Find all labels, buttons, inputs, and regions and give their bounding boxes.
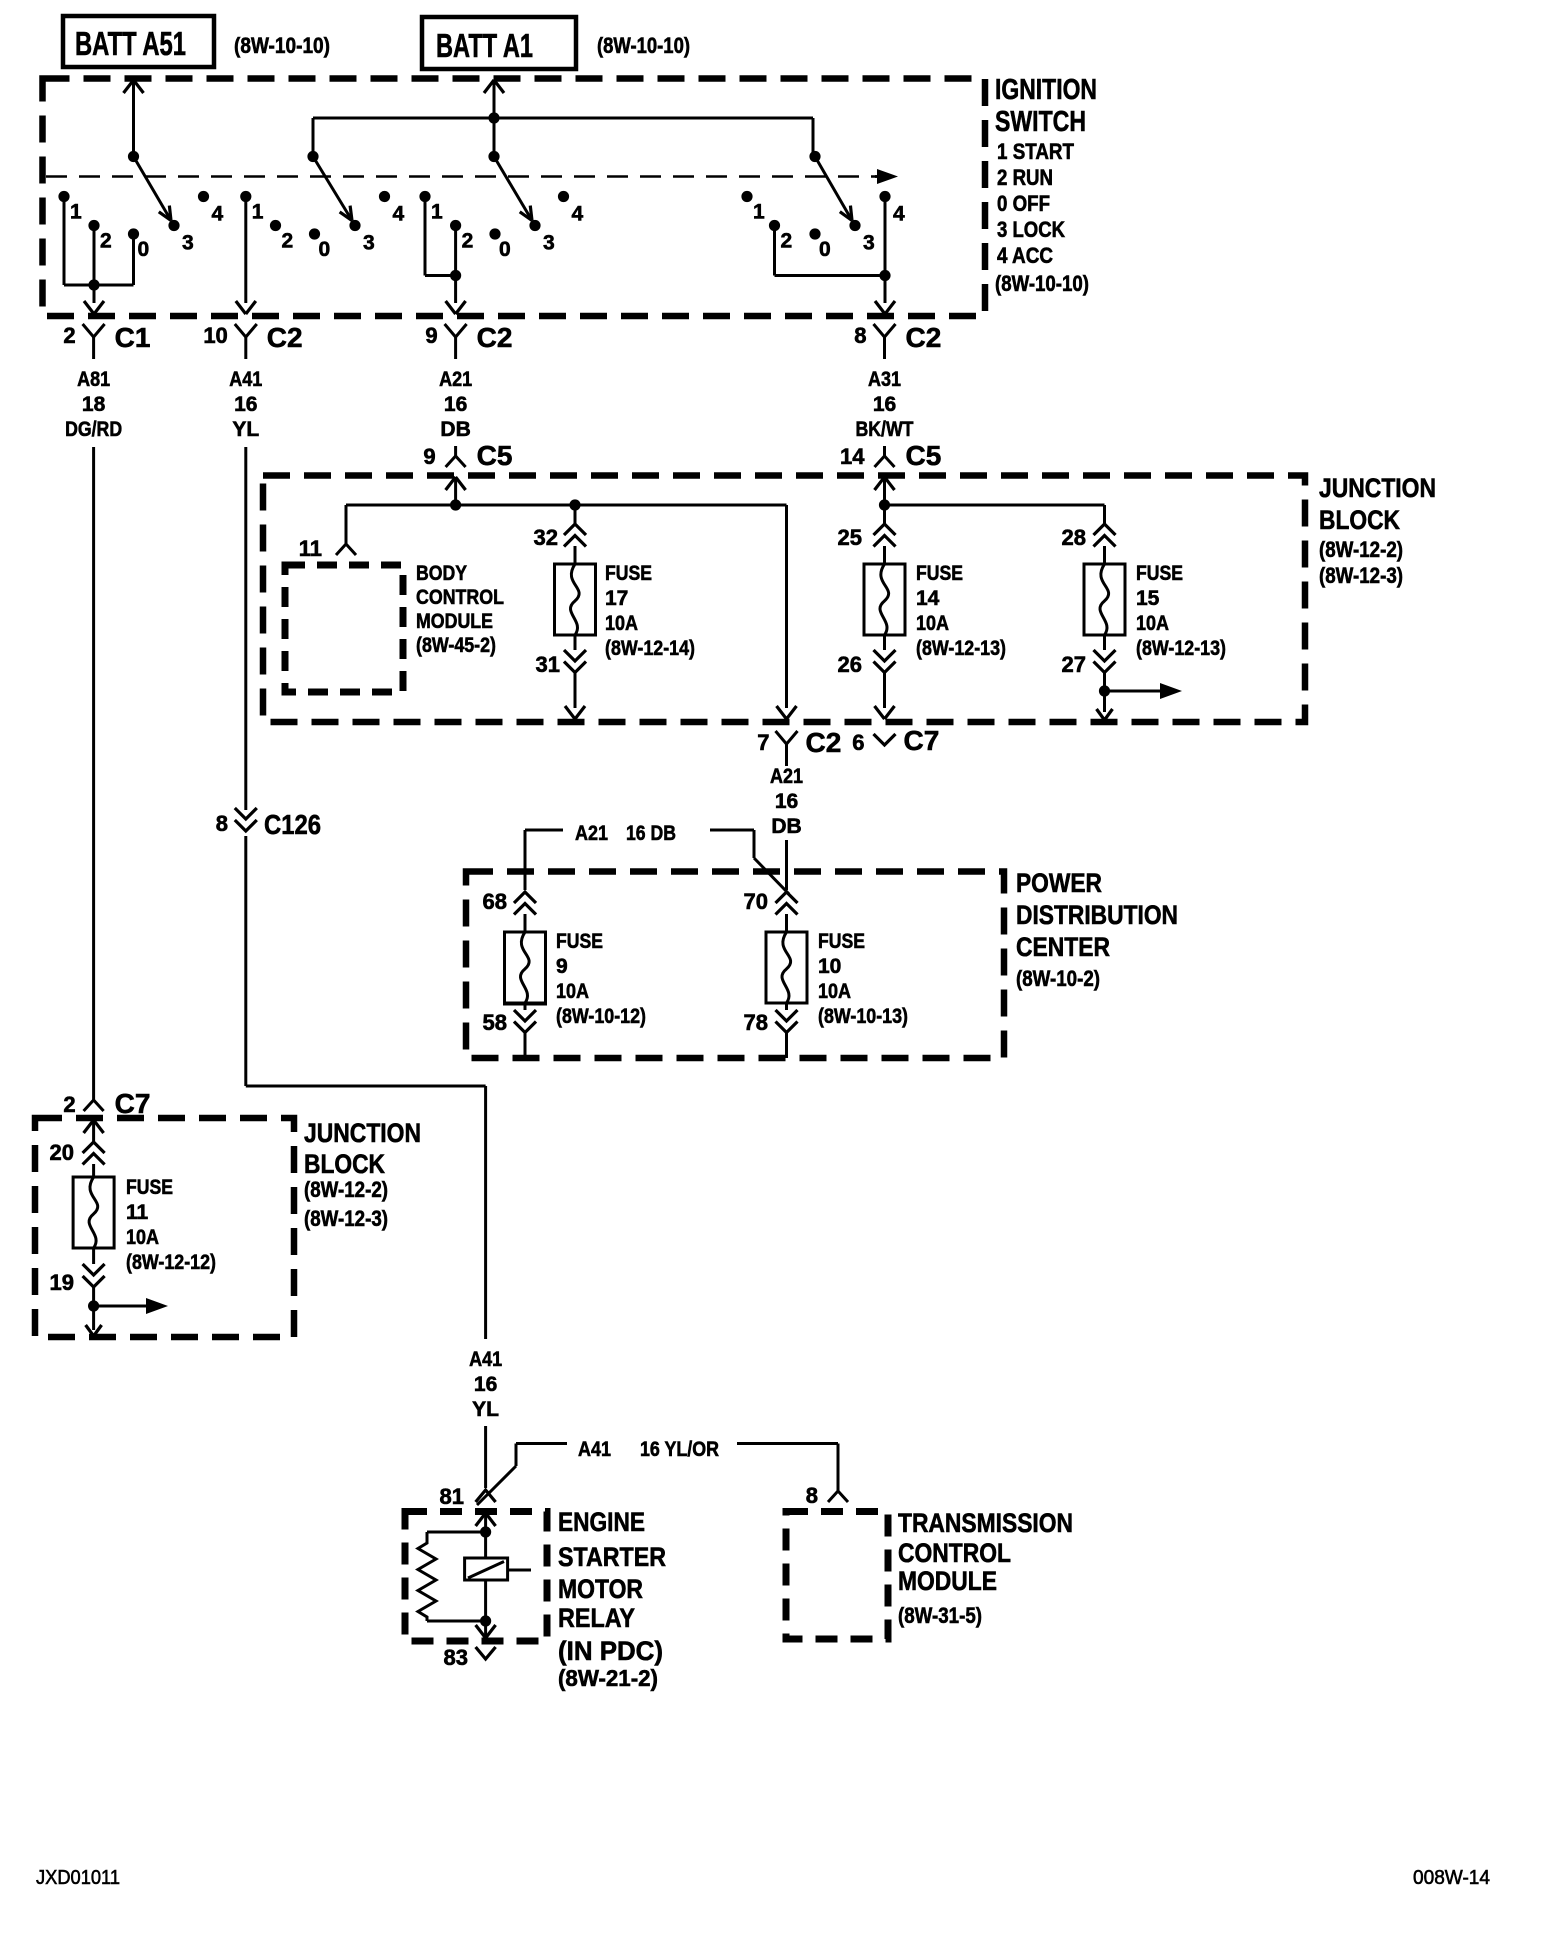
svg-text:FUSE: FUSE [556, 930, 603, 953]
svg-text:FUSE: FUSE [126, 1176, 173, 1199]
svg-text:10A: 10A [818, 980, 851, 1003]
svg-text:A31: A31 [868, 368, 901, 391]
svg-text:(8W-12-2): (8W-12-2) [304, 1177, 388, 1202]
svg-text:1 START: 1 START [997, 139, 1074, 164]
svg-text:JUNCTION: JUNCTION [304, 1118, 421, 1148]
svg-text:11: 11 [299, 536, 322, 561]
svg-text:IGNITION: IGNITION [995, 74, 1097, 106]
svg-text:14: 14 [916, 587, 940, 610]
svg-text:16: 16 [873, 393, 896, 416]
svg-text:(8W-12-13): (8W-12-13) [916, 637, 1006, 660]
svg-text:FUSE: FUSE [605, 562, 652, 585]
svg-text:A21: A21 [770, 765, 803, 788]
svg-text:4: 4 [393, 203, 405, 226]
svg-text:0: 0 [138, 238, 150, 261]
svg-text:81: 81 [440, 1484, 464, 1509]
svg-text:DG/RD: DG/RD [65, 418, 122, 441]
svg-text:16 DB: 16 DB [626, 822, 676, 845]
svg-text:(8W-10-10): (8W-10-10) [995, 271, 1089, 296]
svg-text:68: 68 [483, 889, 507, 914]
svg-text:C126: C126 [264, 809, 321, 840]
svg-text:BK/WT: BK/WT [856, 418, 914, 441]
svg-text:0: 0 [819, 238, 831, 261]
svg-text:78: 78 [744, 1010, 768, 1035]
svg-text:POWER: POWER [1016, 868, 1102, 898]
svg-text:(8W-10-12): (8W-10-12) [556, 1005, 646, 1028]
svg-text:2 RUN: 2 RUN [997, 165, 1053, 190]
svg-text:27: 27 [1062, 652, 1086, 677]
svg-text:C2: C2 [477, 322, 513, 353]
svg-text:1: 1 [70, 201, 82, 224]
svg-text:(8W-21-2): (8W-21-2) [558, 1665, 658, 1691]
svg-text:FUSE: FUSE [916, 562, 963, 585]
svg-text:16 YL/OR: 16 YL/OR [640, 1438, 719, 1461]
svg-text:1: 1 [252, 201, 264, 224]
svg-text:58: 58 [483, 1010, 507, 1035]
svg-text:9: 9 [425, 323, 437, 348]
svg-text:3: 3 [363, 232, 375, 255]
svg-text:1: 1 [431, 201, 443, 224]
svg-text:70: 70 [744, 889, 768, 914]
svg-text:MOTOR: MOTOR [558, 1574, 643, 1604]
svg-text:C5: C5 [477, 440, 513, 471]
svg-text:(8W-12-2): (8W-12-2) [1319, 537, 1403, 562]
svg-text:A41: A41 [469, 1348, 502, 1371]
svg-text:C7: C7 [115, 1088, 151, 1119]
svg-text:32: 32 [534, 525, 558, 550]
svg-text:JUNCTION: JUNCTION [1319, 473, 1436, 503]
svg-text:008W-14: 008W-14 [1413, 1867, 1490, 1889]
svg-text:FUSE: FUSE [1136, 562, 1183, 585]
svg-text:8: 8 [854, 323, 866, 348]
svg-text:3 LOCK: 3 LOCK [997, 217, 1065, 242]
svg-text:3: 3 [543, 232, 555, 255]
svg-text:ENGINE: ENGINE [558, 1507, 645, 1537]
svg-text:A21: A21 [439, 368, 472, 391]
svg-text:10A: 10A [605, 612, 638, 635]
svg-text:(8W-31-5): (8W-31-5) [898, 1603, 982, 1628]
svg-text:0: 0 [319, 238, 331, 261]
svg-text:83: 83 [444, 1645, 468, 1670]
svg-text:YL: YL [232, 418, 259, 441]
svg-text:3: 3 [863, 232, 875, 255]
svg-text:19: 19 [50, 1270, 74, 1295]
svg-text:0: 0 [499, 238, 511, 261]
svg-text:YL: YL [472, 1398, 499, 1421]
svg-text:9: 9 [556, 955, 568, 978]
svg-text:(8W-45-2): (8W-45-2) [416, 634, 496, 657]
svg-text:6: 6 [852, 730, 864, 755]
svg-text:10A: 10A [1136, 612, 1169, 635]
svg-text:2: 2 [63, 323, 75, 348]
svg-text:(8W-12-3): (8W-12-3) [304, 1206, 388, 1231]
svg-text:C1: C1 [115, 322, 151, 353]
svg-text:4 ACC: 4 ACC [997, 243, 1053, 268]
svg-text:10A: 10A [556, 980, 589, 1003]
svg-text:C5: C5 [906, 440, 942, 471]
svg-text:16: 16 [775, 790, 798, 813]
svg-text:16: 16 [474, 1373, 497, 1396]
svg-text:DB: DB [440, 418, 470, 441]
svg-text:DISTRIBUTION: DISTRIBUTION [1016, 900, 1178, 930]
svg-text:A41: A41 [578, 1438, 611, 1461]
svg-text:25: 25 [838, 525, 862, 550]
svg-text:MODULE: MODULE [416, 610, 493, 633]
svg-text:A21: A21 [575, 822, 608, 845]
svg-text:STARTER: STARTER [558, 1542, 666, 1572]
svg-text:15: 15 [1136, 587, 1160, 610]
svg-text:BLOCK: BLOCK [304, 1149, 385, 1179]
svg-text:C2: C2 [267, 322, 303, 353]
svg-text:10A: 10A [126, 1226, 159, 1249]
svg-text:20: 20 [50, 1140, 74, 1165]
svg-text:(8W-10-10): (8W-10-10) [597, 33, 690, 58]
svg-text:(8W-12-13): (8W-12-13) [1136, 637, 1226, 660]
svg-text:CENTER: CENTER [1016, 932, 1110, 962]
svg-text:CONTROL: CONTROL [898, 1538, 1011, 1568]
svg-text:4: 4 [893, 203, 905, 226]
svg-text:16: 16 [234, 393, 257, 416]
svg-text:28: 28 [1062, 525, 1086, 550]
svg-text:8: 8 [216, 811, 228, 836]
svg-text:3: 3 [182, 232, 194, 255]
svg-text:4: 4 [572, 203, 584, 226]
svg-text:BLOCK: BLOCK [1319, 505, 1400, 535]
svg-text:(8W-10-10): (8W-10-10) [234, 33, 330, 58]
svg-text:C7: C7 [904, 725, 940, 756]
svg-text:1: 1 [753, 201, 765, 224]
svg-text:26: 26 [838, 652, 862, 677]
svg-text:(IN PDC): (IN PDC) [558, 1636, 663, 1666]
svg-text:SWITCH: SWITCH [995, 106, 1086, 138]
svg-text:10: 10 [818, 955, 841, 978]
svg-text:BATT A51: BATT A51 [75, 25, 186, 62]
svg-text:(8W-12-3): (8W-12-3) [1319, 563, 1403, 588]
svg-text:FUSE: FUSE [818, 930, 865, 953]
svg-text:14: 14 [840, 444, 865, 469]
svg-text:18: 18 [82, 393, 106, 416]
svg-text:10A: 10A [916, 612, 949, 635]
svg-text:16: 16 [444, 393, 467, 416]
svg-text:TRANSMISSION: TRANSMISSION [898, 1508, 1073, 1538]
svg-text:CONTROL: CONTROL [416, 586, 504, 609]
svg-text:(8W-10-2): (8W-10-2) [1016, 966, 1100, 991]
svg-text:2: 2 [462, 230, 474, 253]
svg-text:BATT A1: BATT A1 [436, 27, 533, 64]
svg-text:RELAY: RELAY [558, 1603, 635, 1633]
svg-text:JXD01011: JXD01011 [36, 1867, 120, 1889]
svg-text:BODY: BODY [416, 562, 467, 585]
svg-text:9: 9 [423, 444, 435, 469]
svg-text:17: 17 [605, 587, 628, 610]
svg-text:7: 7 [757, 730, 769, 755]
svg-text:MODULE: MODULE [898, 1566, 997, 1596]
svg-text:2: 2 [100, 230, 112, 253]
svg-text:2: 2 [781, 230, 793, 253]
svg-text:(8W-10-13): (8W-10-13) [818, 1005, 908, 1028]
svg-text:(8W-12-12): (8W-12-12) [126, 1251, 216, 1274]
svg-text:4: 4 [212, 203, 224, 226]
svg-text:A41: A41 [229, 368, 262, 391]
svg-text:C2: C2 [906, 322, 942, 353]
svg-text:11: 11 [126, 1201, 149, 1224]
svg-text:2: 2 [282, 230, 294, 253]
svg-text:10: 10 [203, 323, 227, 348]
svg-text:A81: A81 [77, 368, 110, 391]
svg-text:(8W-12-14): (8W-12-14) [605, 637, 695, 660]
svg-text:31: 31 [536, 652, 560, 677]
svg-text:C2: C2 [806, 727, 842, 758]
svg-text:8: 8 [806, 1483, 818, 1508]
svg-text:2: 2 [63, 1092, 75, 1117]
svg-text:0 OFF: 0 OFF [997, 191, 1050, 216]
svg-text:DB: DB [771, 815, 801, 838]
